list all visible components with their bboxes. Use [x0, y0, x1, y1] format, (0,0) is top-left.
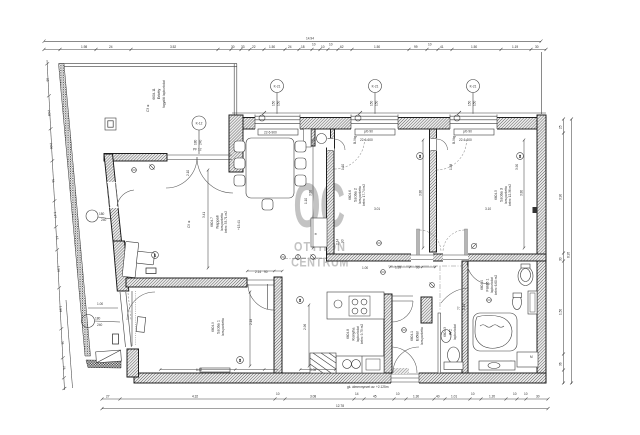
svg-text:2: 2: [519, 155, 521, 159]
svg-text:1.50: 1.50: [559, 309, 563, 315]
terrace door frame szoba1: [120, 292, 126, 347]
svg-text:2.14: 2.14: [336, 239, 340, 245]
svg-text:14.94: 14.94: [306, 37, 314, 41]
svg-text:2.10: 2.10: [186, 170, 190, 176]
door swing PF-12 right leaf: [197, 157, 233, 193]
window W3: [450, 111, 497, 144]
wall kitchen nook right: [331, 129, 335, 148]
svg-text:1.00: 1.00: [97, 302, 103, 306]
svg-text:2.18: 2.18: [249, 319, 253, 325]
svg-text:40: 40: [436, 395, 440, 399]
svg-text:3.01: 3.01: [374, 207, 380, 211]
svg-text:3.41: 3.41: [202, 212, 206, 218]
vertical dim strings in rooms: [207, 139, 525, 368]
dining table: [246, 138, 294, 198]
room label Erkely: [152, 80, 166, 108]
svg-text:C3 ⊕: C3 ⊕: [146, 104, 150, 112]
svg-text:2.06: 2.06: [49, 143, 53, 150]
svg-text:150: 150: [468, 100, 472, 106]
door swing entry right: [393, 347, 419, 373]
svg-text:30: 30: [536, 395, 540, 399]
svg-text:99: 99: [414, 45, 418, 49]
sofa nappali: [122, 241, 139, 277]
dimension line bottom rows: [101, 385, 550, 410]
svg-text:3.10: 3.10: [485, 207, 491, 211]
svg-text:1.56: 1.56: [56, 266, 60, 273]
svg-text:180: 180: [95, 317, 101, 321]
chairs left: [234, 141, 245, 152]
terrace table: [96, 350, 122, 363]
room label Szoba 3: [494, 184, 512, 206]
marker K-21 right: [467, 80, 480, 93]
svg-text:6.32: 6.32: [196, 368, 202, 372]
wall top-left corner pier: [229, 115, 243, 172]
watermark Otthon Centrum logo: [291, 170, 349, 270]
svg-text:6604.5: 6604.5: [494, 190, 498, 200]
wall bottom-left slanted: [127, 349, 139, 377]
svg-text:6604.1: 6604.1: [410, 331, 414, 341]
svg-text:K-21: K-21: [274, 85, 281, 89]
svg-text:gk. álmennyezet av. +2.125m: gk. álmennyezet av. +2.125m: [347, 385, 389, 389]
terrace parapet checkered: [86, 360, 121, 368]
door swing szoba1 entry: [248, 284, 274, 310]
svg-text:10: 10: [329, 43, 333, 47]
door opening szoba1 from hall: [247, 279, 274, 281]
interior dim row above bottom wall: [159, 368, 336, 370]
dash-dot corridor lines: [388, 265, 462, 267]
wall pier left A: [113, 241, 129, 291]
door opening szoba2: [411, 253, 433, 262]
wall nappali top (terrace front): [104, 154, 167, 162]
exterior walls: [86, 111, 546, 384]
svg-text:belm: 6.60 m2: belm: 6.60 m2: [494, 275, 498, 295]
partition wc west: [438, 313, 441, 373]
niche door szoba2 west: [327, 138, 345, 151]
svg-text:K-12: K-12: [196, 122, 203, 126]
svg-text:10: 10: [471, 392, 475, 396]
svg-text:30: 30: [559, 257, 563, 261]
interior walls: [126, 129, 546, 373]
door swing kitchen: [392, 301, 413, 322]
counter nook: [304, 129, 312, 147]
svg-text:77: 77: [457, 306, 461, 310]
svg-text:B-9kg: B-9kg: [353, 135, 357, 144]
kitchen island: [327, 292, 384, 319]
svg-text:25: 25: [559, 125, 563, 129]
balcony column: [105, 118, 116, 130]
svg-text:1.50: 1.50: [471, 45, 477, 49]
svg-text:1.00: 1.00: [362, 266, 368, 270]
svg-text:4.32: 4.32: [192, 395, 198, 399]
wall right exterior: [537, 115, 546, 383]
svg-text:1.58: 1.58: [58, 306, 62, 313]
svg-text:10: 10: [428, 43, 432, 47]
right wall stub: [533, 207, 538, 213]
door opening furdo and szoba3: [443, 253, 468, 262]
svg-text:10: 10: [321, 45, 325, 49]
svg-text:3.08: 3.08: [310, 368, 316, 372]
svg-text:2: 2: [299, 299, 301, 303]
balcony outline: [59, 64, 480, 356]
svg-text:p/b 90: p/b 90: [463, 129, 472, 133]
svg-text:3.52: 3.52: [170, 45, 176, 49]
svg-text:24: 24: [288, 45, 292, 49]
room label Szoba 1: [211, 318, 225, 336]
svg-text:6604.11: 6604.11: [152, 88, 156, 100]
wall top exterior: [232, 112, 546, 114]
svg-text:lapburkolat: lapburkolat: [453, 324, 457, 340]
opening in left wall: [107, 182, 118, 208]
svg-text:PF 12: PF 12: [193, 148, 202, 152]
chair bottom: [262, 199, 273, 210]
door swing furdo: [467, 261, 490, 284]
svg-text:22: 22: [252, 45, 256, 49]
svg-text:1.01: 1.01: [451, 395, 457, 399]
svg-text:3.80: 3.80: [309, 190, 313, 196]
svg-text:3.90: 3.90: [515, 164, 519, 170]
washing machine M: [517, 352, 538, 367]
svg-text:10: 10: [524, 392, 528, 396]
sink in nook: [317, 134, 327, 144]
svg-text:180: 180: [194, 139, 198, 145]
circled markers rooms: [152, 153, 524, 364]
svg-text:WC: WC: [449, 329, 453, 336]
wall corridor south of bedrooms: [327, 254, 547, 261]
cabinet furdo: [528, 291, 537, 314]
svg-text:Szoba 3: Szoba 3: [500, 188, 504, 202]
circled marker near machine: [508, 361, 514, 367]
svg-text:belm: 12.36 m2: belm: 12.36 m2: [508, 184, 512, 206]
interior dim row below corridor wall: [246, 266, 436, 272]
svg-text:Szoba 2: Szoba 2: [354, 188, 358, 202]
dimension line left diagonal: [45, 60, 72, 390]
svg-text:lam.parketta: lam.parketta: [221, 318, 225, 336]
niche door szoba3 west: [430, 138, 448, 151]
balcony top edge railing: [59, 63, 237, 65]
entry door opening in bottom wall: [391, 368, 419, 384]
svg-text:Előtér: Előtér: [416, 330, 420, 341]
svg-text:10: 10: [513, 392, 517, 396]
room label WC: [443, 324, 457, 340]
svg-text:1.10: 1.10: [341, 164, 345, 170]
balcony left slanted railing wall: [59, 64, 91, 356]
wall szoba1 top: [126, 278, 247, 287]
svg-text:150: 150: [370, 100, 374, 106]
svg-text:2.96: 2.96: [303, 324, 307, 330]
bathtub: [473, 313, 517, 351]
svg-text:41: 41: [440, 45, 444, 49]
wardrobe H: [311, 218, 327, 247]
svg-text:150: 150: [375, 100, 379, 106]
svg-text:90: 90: [264, 270, 268, 274]
svg-text:10: 10: [396, 392, 400, 396]
marker K-21 left: [271, 80, 284, 93]
room label Szoba 2: [348, 184, 366, 206]
svg-text:C9 ⊕: C9 ⊕: [187, 220, 191, 228]
wall left slanted upper: [104, 154, 122, 241]
svg-text:K-21: K-21: [470, 85, 477, 89]
svg-text:+15.41: +15.41: [237, 220, 241, 230]
door swing szoba3 south: [465, 229, 468, 255]
svg-text:240: 240: [97, 323, 103, 327]
pantry cupboard: [310, 353, 336, 373]
svg-text:36: 36: [60, 341, 64, 345]
wall wc/furdo: [462, 261, 468, 373]
wall nappali/hall divider: [327, 148, 335, 254]
vanity counter furdo: [479, 361, 515, 370]
svg-text:27: 27: [106, 395, 110, 399]
door swing szoba2 big dashed: [335, 139, 365, 169]
terrace door PF-12 opening: [167, 154, 232, 156]
svg-text:150: 150: [272, 100, 276, 106]
svg-text:6604.8: 6604.8: [346, 329, 350, 339]
svg-text:62: 62: [340, 45, 344, 49]
svg-text:M: M: [530, 355, 533, 359]
svg-text:150: 150: [473, 100, 477, 106]
svg-text:45: 45: [373, 395, 377, 399]
svg-text:1.50: 1.50: [269, 45, 275, 49]
svg-text:6604.3: 6604.3: [443, 327, 447, 337]
wall pier eloter/wc: [421, 297, 432, 323]
svg-text:K-21: K-21: [372, 85, 379, 89]
washbasin furdo: [518, 267, 533, 286]
svg-text:22-6-900: 22-6-900: [264, 131, 277, 135]
wall kitchen nook left: [311, 129, 315, 146]
svg-text:Nappali: Nappali: [216, 215, 220, 228]
svg-text:1.30: 1.30: [413, 395, 419, 399]
svg-text:3.80: 3.80: [520, 190, 524, 196]
svg-text:p/b 90: p/b 90: [364, 129, 373, 133]
svg-text:76: 76: [62, 366, 66, 370]
svg-text:15: 15: [55, 236, 59, 240]
svg-text:22-6-600: 22-6-600: [459, 138, 472, 142]
toilet furdo: [513, 295, 522, 310]
svg-text:56: 56: [51, 179, 55, 183]
dimension line top 14.94: [43, 37, 543, 44]
kitchen lower cabinets: [336, 356, 384, 373]
dim 1.00 terrace: [88, 307, 118, 309]
svg-text:18: 18: [301, 45, 305, 49]
svg-text:6604.4: 6604.4: [480, 280, 484, 290]
svg-text:2.08: 2.08: [47, 110, 51, 117]
room label Furdo 1: [480, 275, 498, 295]
door swing PF-12 left leaf: [166, 157, 197, 188]
door swing szoba1 terrace: [127, 292, 155, 320]
svg-text:lam.parketta: lam.parketta: [420, 327, 424, 345]
chairs right: [295, 141, 306, 152]
svg-text:1.17: 1.17: [53, 212, 57, 219]
svg-text:10: 10: [312, 43, 316, 47]
room label Eloter: [410, 327, 424, 345]
svg-text:30: 30: [231, 45, 235, 49]
symbol near szoba3 door: [471, 243, 476, 248]
svg-text:240: 240: [101, 218, 107, 222]
dimension line right vertical: [559, 118, 574, 385]
svg-text:6604.9: 6604.9: [211, 322, 215, 332]
kitchen door opening: [392, 295, 413, 297]
circled door height 180/240 upper: [86, 210, 98, 222]
svg-text:30: 30: [535, 45, 539, 49]
circled door height 180/240 lower: [82, 315, 95, 328]
wall szoba1 right / hall: [274, 277, 282, 373]
svg-text:3.90: 3.90: [559, 194, 563, 200]
svg-text:Konyha: Konyha: [352, 327, 356, 341]
wall szoba2/szoba3 divider: [430, 129, 437, 252]
balcony right edge railing: [233, 64, 235, 115]
svg-text:2.14: 2.14: [255, 270, 261, 274]
svg-text:2: 2: [239, 359, 241, 363]
door swing szoba3 big dashed: [437, 140, 467, 170]
svg-text:240: 240: [199, 139, 203, 145]
svg-text:1.88: 1.88: [449, 164, 453, 170]
svg-text:fagyálló lapburkolat: fagyálló lapburkolat: [162, 80, 166, 108]
svg-text:180: 180: [99, 212, 105, 216]
leader line top right corner: [541, 52, 543, 114]
marker K-12: [192, 116, 206, 130]
svg-text:1.50: 1.50: [374, 45, 380, 49]
svg-text:Erkély: Erkély: [157, 89, 161, 100]
svg-text:14: 14: [355, 392, 359, 396]
fixtures: [122, 138, 538, 373]
svg-text:Szoba 1: Szoba 1: [217, 320, 221, 334]
svg-text:24: 24: [109, 45, 113, 49]
svg-text:36: 36: [559, 362, 563, 366]
svg-text:B-9kg: B-9kg: [452, 135, 456, 144]
svg-text:33: 33: [241, 45, 245, 49]
doors: [117, 139, 490, 373]
svg-text:2.14: 2.14: [462, 304, 466, 310]
window W2: [351, 111, 398, 144]
door swing wc: [441, 288, 468, 303]
svg-text:22-6-600: 22-6-600: [360, 138, 373, 142]
radiator szoba1 bottom: [200, 368, 230, 372]
svg-text:2: 2: [419, 155, 421, 159]
nappali ceiling symbols: [132, 168, 137, 173]
door swing szoba2 south: [417, 229, 420, 255]
KB boxes: [146, 268, 156, 274]
wall bottom exterior: [134, 373, 546, 383]
svg-text:6604.6: 6604.6: [348, 190, 352, 200]
svg-text:90: 90: [341, 239, 345, 243]
electrical symbols corridor: [281, 241, 492, 333]
svg-text:1.19: 1.19: [512, 45, 518, 49]
door swing entry left: [391, 347, 417, 373]
svg-text:belm: 33.71 m2: belm: 33.71 m2: [224, 211, 228, 233]
svg-text:belm: 9.75 m2: belm: 9.75 m2: [360, 324, 364, 344]
room label Konyha: [346, 324, 364, 344]
svg-text:1: 1: [154, 254, 156, 258]
wc toilet: [448, 347, 460, 363]
svg-text:1.10: 1.10: [304, 198, 308, 204]
svg-text:belm: 17.74 m2: belm: 17.74 m2: [362, 184, 366, 206]
svg-text:98: 98: [45, 78, 49, 82]
svg-text:1.98: 1.98: [81, 45, 87, 49]
svg-text:1.20: 1.20: [489, 395, 495, 399]
svg-text:150: 150: [277, 100, 281, 106]
room label Nappali: [210, 211, 228, 233]
svg-text:Fürdő 1: Fürdő 1: [486, 278, 490, 291]
svg-text:10: 10: [276, 392, 280, 396]
window W1: [255, 111, 300, 135]
dimension line top segments: [43, 43, 548, 115]
svg-text:6604.7: 6604.7: [210, 217, 214, 227]
svg-text:8.95: 8.95: [567, 252, 571, 258]
marker K-21 middle: [369, 80, 382, 93]
wc basin: [441, 330, 451, 343]
svg-text:12.78: 12.78: [336, 404, 344, 408]
wall kitchen east: [384, 294, 392, 373]
svg-text:3.80: 3.80: [419, 190, 423, 196]
door swing nappali west opening: [117, 190, 134, 206]
svg-text:3.08: 3.08: [310, 395, 316, 399]
